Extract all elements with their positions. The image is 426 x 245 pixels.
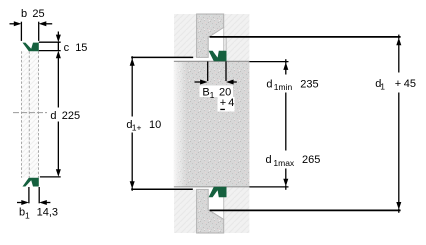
dimension B1 20 +4/- (label) bbox=[200, 86, 235, 112]
seal ring body (left view, hatched column) bbox=[21, 51, 38, 177]
dimension b 25 (extension lines) bbox=[21, 22, 38, 41]
svg-text:4: 4 bbox=[228, 97, 234, 109]
dimension c 15 (label) bbox=[64, 42, 88, 54]
dimension c 15 (reference lines) bbox=[39, 42, 61, 50]
housing plate hatched strip bottom-right (right view) bbox=[224, 186, 250, 233]
svg-text:1: 1 bbox=[25, 211, 30, 221]
svg-text:45: 45 bbox=[404, 78, 416, 90]
dimension d1min 235 (label) bbox=[263, 75, 321, 92]
seal profile top (right view) bbox=[209, 51, 227, 62]
housing column bottom with chamfer (right view) bbox=[197, 189, 224, 233]
centerline of ring (left view) bbox=[13, 112, 47, 114]
dimension d1+45 (dimension line and arrows) bbox=[396, 35, 401, 213]
reference line bottom (d1+10 lower) bbox=[131, 188, 193, 190]
svg-text:1: 1 bbox=[210, 90, 215, 100]
svg-text:d: d bbox=[266, 79, 272, 91]
dimension b 25 (label) bbox=[21, 8, 45, 20]
svg-text:1+: 1+ bbox=[132, 123, 142, 133]
svg-text:14,3: 14,3 bbox=[37, 207, 58, 219]
groove block / mating part (right view, large stippled rectangle) bbox=[174, 61, 250, 186]
reference line bottom (d1+45 lower) bbox=[210, 209, 401, 211]
svg-text:10: 10 bbox=[149, 119, 161, 131]
dimension d1+10 (label) bbox=[124, 117, 163, 133]
extension line (d1max lower) bbox=[249, 186, 288, 188]
dimension B1 20 (extension lines) bbox=[208, 61, 226, 81]
svg-text:15: 15 bbox=[75, 42, 87, 54]
reference line top (d1+45 upper) bbox=[210, 36, 401, 38]
dimension b1 14,3 (arrows) bbox=[17, 200, 50, 205]
housing column top with chamfer (right view) bbox=[197, 14, 224, 57]
extension line (d1min upper) bbox=[249, 61, 288, 63]
seal profile bottom (left view) bbox=[23, 178, 39, 187]
dimension d 225 (dimension line and arrow) bbox=[40, 57, 61, 177]
svg-text:d: d bbox=[50, 110, 56, 122]
dimension B1 20 (arrows) bbox=[195, 80, 237, 85]
dimension d1min / d1max (dimension line and arrows) bbox=[283, 59, 288, 190]
housing plate hatched strip bottom-left (right view) bbox=[174, 189, 197, 233]
svg-text:1max: 1max bbox=[273, 158, 295, 168]
svg-text:1: 1 bbox=[380, 82, 385, 92]
svg-text:25: 25 bbox=[32, 8, 44, 20]
groove corner hidden edge (right view) bbox=[225, 38, 227, 51]
dimension b1 14,3 (label) bbox=[19, 207, 58, 221]
svg-text:235: 235 bbox=[300, 79, 318, 91]
svg-text:b: b bbox=[21, 8, 27, 20]
svg-text:225: 225 bbox=[62, 110, 80, 122]
svg-text:c: c bbox=[64, 42, 70, 54]
dimension d1max 265 (label) bbox=[262, 151, 322, 169]
dimension d 225 (label) bbox=[50, 110, 80, 122]
dimension b1 14,3 (extension lines) bbox=[29, 187, 39, 203]
housing plate hatched strip top-right (right view) bbox=[224, 14, 250, 61]
seal profile top (left view) bbox=[23, 43, 39, 52]
dimension c 15 (arrows) bbox=[56, 32, 61, 59]
svg-text:+: + bbox=[220, 97, 226, 109]
dimension b 25 (arrows) bbox=[10, 21, 53, 26]
seal profile bottom (right view) bbox=[209, 187, 227, 197]
dimension d1+45 (label) bbox=[372, 74, 418, 92]
svg-text:d: d bbox=[266, 154, 272, 166]
svg-text:1min: 1min bbox=[274, 82, 293, 92]
reference line top (d1+10 upper) bbox=[131, 56, 193, 58]
svg-text:265: 265 bbox=[302, 154, 320, 166]
housing plate hatched strip top-left (right view) bbox=[174, 14, 197, 57]
svg-text:+: + bbox=[395, 78, 401, 90]
dimension d1+10 (dimension line and arrows) bbox=[130, 56, 135, 191]
